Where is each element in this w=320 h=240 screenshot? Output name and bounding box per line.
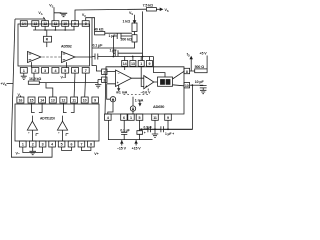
svg-text:1 μF: 1 μF [109, 34, 117, 38]
svg-text:9: 9 [167, 116, 169, 120]
svg-text:8: 8 [186, 70, 188, 74]
svg-text:3: 3 [42, 143, 44, 147]
svg-text:+: + [145, 84, 147, 88]
svg-text:0.1 μF: 0.1 μF [120, 128, 129, 132]
svg-text:500 Ω: 500 Ω [195, 65, 205, 69]
svg-text:+15 V: +15 V [132, 146, 142, 150]
svg-text:11: 11 [153, 116, 157, 120]
svg-text:5: 5 [139, 116, 141, 120]
svg-text:9: 9 [148, 62, 150, 66]
svg-text:10: 10 [63, 22, 67, 26]
svg-text:11: 11 [72, 99, 76, 103]
svg-text:7: 7 [80, 143, 82, 147]
svg-text:13: 13 [51, 99, 55, 103]
svg-text:0.1 μF: 0.1 μF [93, 43, 104, 47]
svg-text:16: 16 [18, 99, 22, 103]
svg-text:2: 2 [32, 143, 34, 147]
svg-text:−: − [118, 72, 120, 76]
svg-text:≅1 mA: ≅1 mA [116, 90, 128, 94]
svg-text:−: − [145, 76, 147, 80]
svg-text:14: 14 [22, 22, 26, 26]
svg-text:16.9 kΩ: 16.9 kΩ [29, 77, 41, 81]
svg-text:V−: V− [61, 76, 65, 80]
svg-text:1 μF +: 1 μF + [165, 132, 174, 136]
svg-text:AD650: AD650 [153, 105, 164, 109]
svg-text:1: 1 [140, 62, 142, 66]
svg-text:−15 V: −15 V [117, 146, 127, 150]
svg-text:6: 6 [71, 143, 73, 147]
svg-text:1: 1 [130, 116, 132, 120]
svg-text:12: 12 [61, 99, 65, 103]
svg-text:2: 2 [34, 69, 36, 73]
svg-text:1 μF: 1 μF [110, 48, 118, 52]
svg-text:7: 7 [85, 69, 87, 73]
svg-text:11: 11 [54, 22, 58, 26]
svg-text:3: 3 [44, 69, 46, 73]
svg-text:0.1μF: 0.1μF [144, 125, 152, 129]
svg-text:+5 V: +5 V [200, 51, 208, 55]
svg-text:1: 1 [22, 143, 24, 147]
svg-text:10: 10 [83, 99, 87, 103]
svg-text:AD592: AD592 [61, 44, 72, 48]
svg-text:AD7512DI: AD7512DI [40, 117, 55, 121]
svg-text:12: 12 [43, 22, 47, 26]
svg-text:4: 4 [107, 116, 109, 120]
svg-text:3: 3 [103, 79, 105, 83]
svg-text:8: 8 [90, 143, 92, 147]
svg-text:6: 6 [123, 116, 125, 120]
svg-text:15: 15 [30, 99, 34, 103]
svg-text:+: + [117, 81, 119, 85]
svg-text:9: 9 [94, 99, 96, 103]
svg-text:10: 10 [185, 84, 189, 88]
svg-text:1 mA: 1 mA [135, 99, 144, 103]
svg-text:13: 13 [131, 62, 135, 66]
svg-text:V+: V+ [94, 152, 98, 156]
svg-text:1 kΩ: 1 kΩ [123, 19, 131, 23]
svg-text:4: 4 [54, 69, 56, 73]
svg-text:+: + [144, 131, 146, 135]
svg-text:200 kΩ: 200 kΩ [121, 38, 132, 42]
svg-text:V−: V− [16, 151, 20, 155]
svg-text:5: 5 [61, 143, 63, 147]
svg-text:13: 13 [33, 22, 37, 26]
svg-text:8: 8 [85, 22, 87, 26]
svg-text:2: 2 [103, 71, 105, 75]
svg-text:−0.6 V: −0.6 V [141, 91, 152, 95]
svg-text:10 pF: 10 pF [195, 80, 205, 84]
svg-text:4: 4 [51, 143, 53, 147]
svg-text:7.5 kΩ: 7.5 kΩ [143, 3, 153, 7]
svg-text:14: 14 [123, 62, 127, 66]
svg-text:1: 1 [23, 69, 25, 73]
svg-text:40 kΩ: 40 kΩ [94, 27, 104, 31]
svg-text:14: 14 [40, 99, 44, 103]
svg-text:9: 9 [74, 22, 76, 26]
svg-text:6: 6 [74, 69, 76, 73]
svg-text:5: 5 [64, 69, 66, 73]
